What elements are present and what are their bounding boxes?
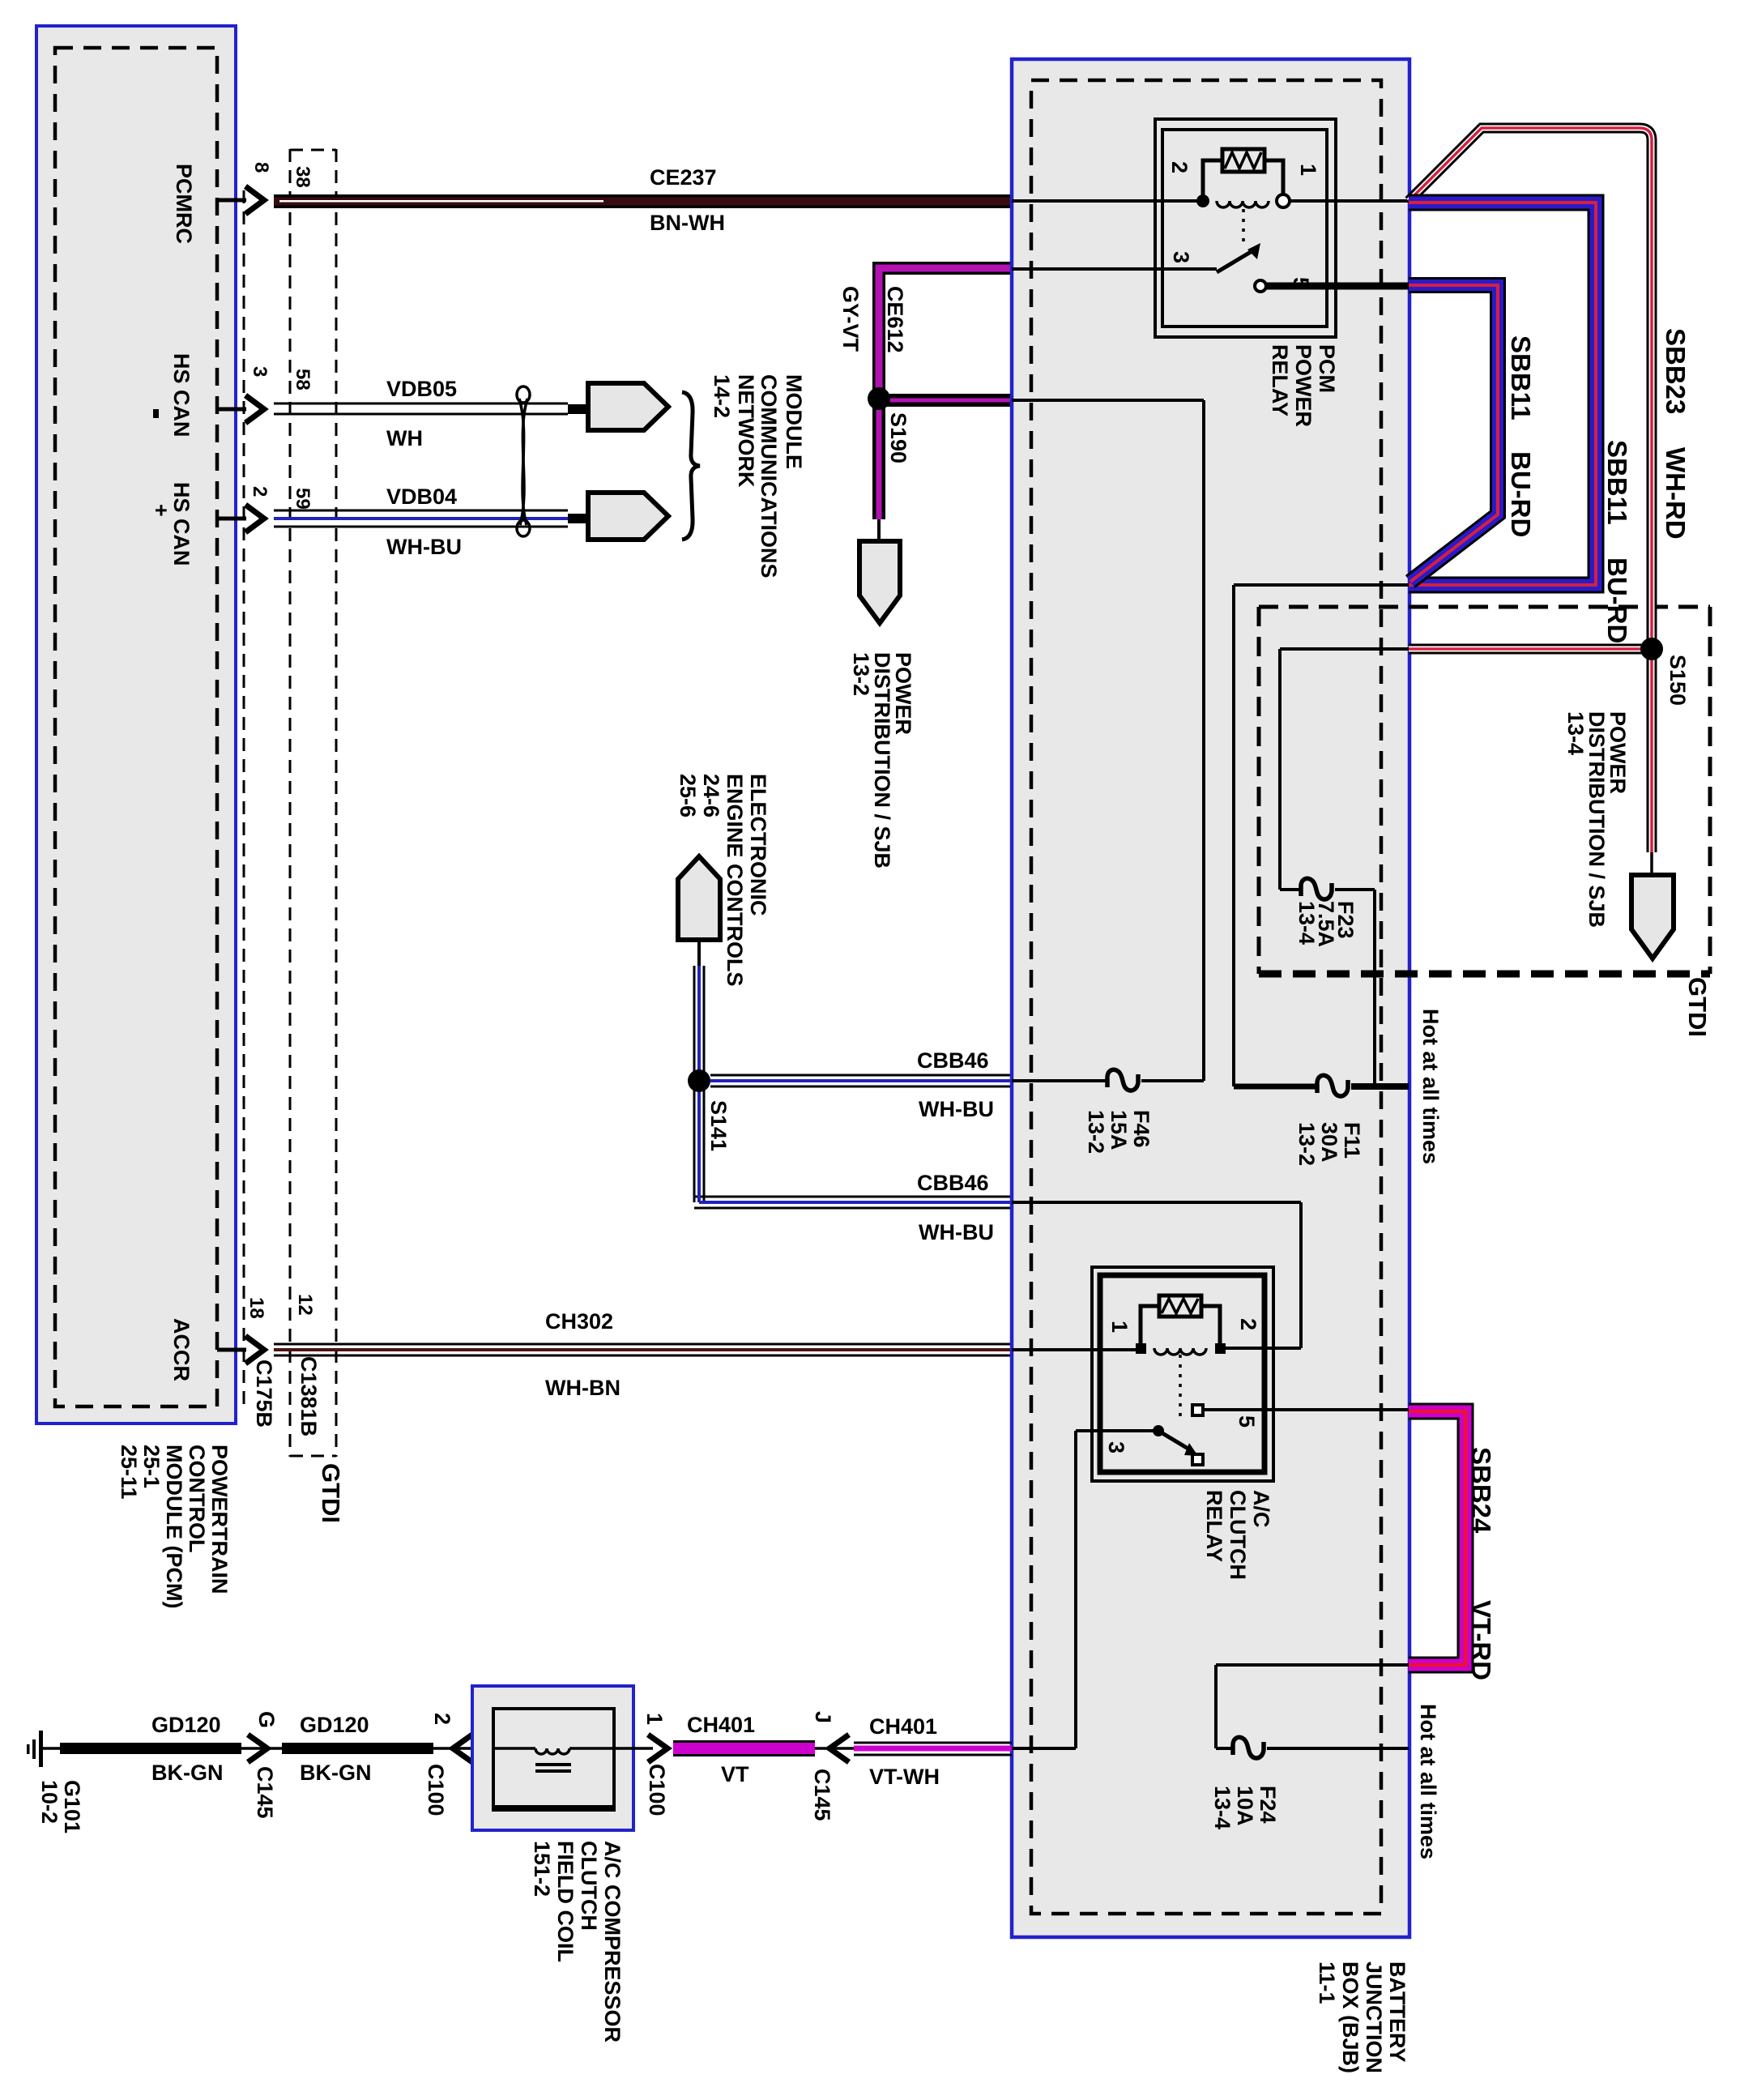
- svg-text:HS CAN: HS CAN: [169, 353, 194, 437]
- svg-text:BATTERY: BATTERY: [1385, 1961, 1409, 2063]
- svg-text:C145: C145: [810, 1769, 834, 1821]
- svg-text:14-2: 14-2: [710, 374, 734, 418]
- svg-text:Hot at all times: Hot at all times: [1416, 1704, 1440, 1859]
- svg-text:F11: F11: [1340, 1122, 1364, 1159]
- svg-text:15A: 15A: [1107, 1110, 1131, 1150]
- svg-text:CONTROL: CONTROL: [185, 1445, 209, 1552]
- svg-text:GD120: GD120: [151, 1713, 221, 1737]
- svg-text:2: 2: [430, 1713, 454, 1725]
- svg-text:1: 1: [1296, 164, 1320, 176]
- svg-text:BOX (BJB): BOX (BJB): [1338, 1961, 1363, 2073]
- svg-text:10A: 10A: [1233, 1786, 1257, 1826]
- svg-text:1: 1: [642, 1713, 667, 1725]
- svg-text:VT: VT: [721, 1762, 749, 1786]
- svg-text:SBB24: SBB24: [1466, 1447, 1496, 1534]
- svg-text:POWER: POWER: [1291, 344, 1316, 427]
- svg-text:WH: WH: [386, 426, 423, 450]
- svg-text:CH401: CH401: [869, 1714, 937, 1739]
- svg-text:25-6: 25-6: [676, 774, 700, 817]
- svg-text:25-11: 25-11: [117, 1445, 141, 1500]
- svg-text:VDB04: VDB04: [386, 484, 457, 509]
- svg-text:POWERTRAIN: POWERTRAIN: [207, 1445, 232, 1594]
- svg-text:MODULE: MODULE: [782, 374, 806, 469]
- svg-text:WH-RD: WH-RD: [1661, 447, 1691, 540]
- svg-text:S150: S150: [1665, 655, 1690, 706]
- svg-text:FIELD COIL: FIELD COIL: [553, 1841, 578, 1962]
- svg-text:WH-BU: WH-BU: [386, 535, 462, 559]
- svg-text:59: 59: [292, 488, 313, 510]
- svg-text:GTDI: GTDI: [1683, 977, 1712, 1037]
- svg-text:10-2: 10-2: [37, 1780, 62, 1824]
- svg-text:SBB11: SBB11: [1506, 335, 1536, 420]
- svg-text:24-6: 24-6: [699, 774, 723, 817]
- svg-text:CBB46: CBB46: [917, 1048, 989, 1073]
- svg-text:CLUTCH: CLUTCH: [1226, 1490, 1250, 1580]
- svg-text:SBB23: SBB23: [1661, 328, 1691, 414]
- svg-text:30A: 30A: [1317, 1122, 1341, 1163]
- svg-text:WH-BN: WH-BN: [545, 1376, 621, 1400]
- svg-text:2: 2: [1167, 161, 1192, 173]
- svg-text:151-2: 151-2: [530, 1841, 554, 1897]
- svg-text:CLUTCH: CLUTCH: [577, 1841, 601, 1931]
- svg-text:G101: G101: [60, 1780, 84, 1833]
- svg-text:S141: S141: [706, 1100, 731, 1151]
- svg-text:3: 3: [1104, 1441, 1128, 1453]
- svg-text:2: 2: [249, 486, 271, 497]
- svg-text:Hot at all times: Hot at all times: [1418, 1009, 1443, 1164]
- svg-text:CBB46: CBB46: [917, 1171, 989, 1195]
- svg-text:1: 1: [1107, 1321, 1132, 1333]
- svg-text:CH302: CH302: [545, 1309, 613, 1334]
- svg-text:BN-WH: BN-WH: [650, 211, 725, 235]
- svg-text:2: 2: [1236, 1318, 1260, 1330]
- svg-text:J: J: [811, 1711, 835, 1723]
- svg-text:C175B: C175B: [252, 1359, 276, 1428]
- svg-text:VT-RD: VT-RD: [1466, 1600, 1496, 1680]
- svg-text:RELAY: RELAY: [1268, 344, 1292, 416]
- svg-text:13-2: 13-2: [1084, 1110, 1108, 1154]
- svg-text:NETWORK: NETWORK: [734, 374, 758, 488]
- svg-text:3: 3: [249, 366, 271, 377]
- svg-text:COMMUNICATIONS: COMMUNICATIONS: [757, 374, 781, 578]
- svg-text:13-4: 13-4: [1294, 901, 1319, 945]
- svg-text:F24: F24: [1256, 1786, 1280, 1824]
- svg-text:3: 3: [1169, 251, 1193, 263]
- svg-text:VDB05: VDB05: [386, 377, 457, 401]
- svg-text:S190: S190: [886, 412, 911, 463]
- svg-text:ELECTRONIC: ELECTRONIC: [746, 774, 770, 916]
- svg-text:18: 18: [245, 1297, 267, 1319]
- svg-text:+: +: [149, 504, 173, 517]
- svg-text:HS CAN: HS CAN: [169, 482, 194, 566]
- svg-text:12: 12: [294, 1294, 316, 1316]
- svg-text:13-4: 13-4: [1563, 711, 1588, 755]
- svg-text:CE612: CE612: [883, 286, 907, 353]
- svg-text:VT-WH: VT-WH: [869, 1765, 940, 1789]
- svg-text:38: 38: [292, 166, 313, 188]
- svg-text:5: 5: [1235, 1415, 1259, 1428]
- svg-text:G: G: [254, 1711, 279, 1728]
- svg-text:5: 5: [1289, 277, 1313, 289]
- svg-text:MODULE (PCM): MODULE (PCM): [162, 1445, 186, 1608]
- svg-text:PCM: PCM: [1315, 344, 1339, 393]
- svg-text:C100: C100: [645, 1764, 669, 1816]
- svg-text:A/C: A/C: [1249, 1490, 1273, 1528]
- svg-text:13-2: 13-2: [1294, 1122, 1319, 1166]
- svg-text:PCMRC: PCMRC: [172, 164, 196, 244]
- svg-text:ACCR: ACCR: [169, 1318, 194, 1381]
- svg-text:JUNCTION: JUNCTION: [1362, 1961, 1386, 2073]
- svg-text:8: 8: [250, 162, 272, 173]
- svg-text:BU-RD: BU-RD: [1602, 557, 1632, 643]
- svg-text:F46: F46: [1129, 1110, 1154, 1148]
- svg-text:A/C COMPRESSOR: A/C COMPRESSOR: [600, 1841, 625, 2042]
- svg-text:25-1: 25-1: [139, 1445, 164, 1488]
- svg-text:WH-BU: WH-BU: [919, 1097, 994, 1121]
- svg-text:GY-VT: GY-VT: [838, 286, 863, 352]
- svg-text:C1381B: C1381B: [296, 1356, 321, 1436]
- svg-text:SBB11: SBB11: [1602, 440, 1632, 525]
- svg-text:WH-BU: WH-BU: [919, 1220, 994, 1244]
- svg-text:C145: C145: [253, 1766, 277, 1819]
- svg-text:BU-RD: BU-RD: [1506, 451, 1536, 537]
- svg-text:CE237: CE237: [650, 165, 717, 190]
- svg-text:BK-GN: BK-GN: [151, 1761, 224, 1785]
- svg-text:BK-GN: BK-GN: [300, 1761, 372, 1785]
- svg-text:C100: C100: [424, 1764, 448, 1816]
- svg-text:ENGINE CONTROLS: ENGINE CONTROLS: [723, 774, 747, 987]
- svg-text:58: 58: [292, 369, 313, 391]
- svg-text:RELAY: RELAY: [1202, 1490, 1226, 1562]
- svg-text:CH401: CH401: [687, 1713, 755, 1737]
- svg-text:11-1: 11-1: [1315, 1961, 1339, 2004]
- svg-text:GD120: GD120: [300, 1713, 369, 1737]
- svg-text:13-2: 13-2: [849, 652, 873, 696]
- svg-text:GTDI: GTDI: [317, 1463, 345, 1523]
- svg-text:13-4: 13-4: [1210, 1786, 1235, 1829]
